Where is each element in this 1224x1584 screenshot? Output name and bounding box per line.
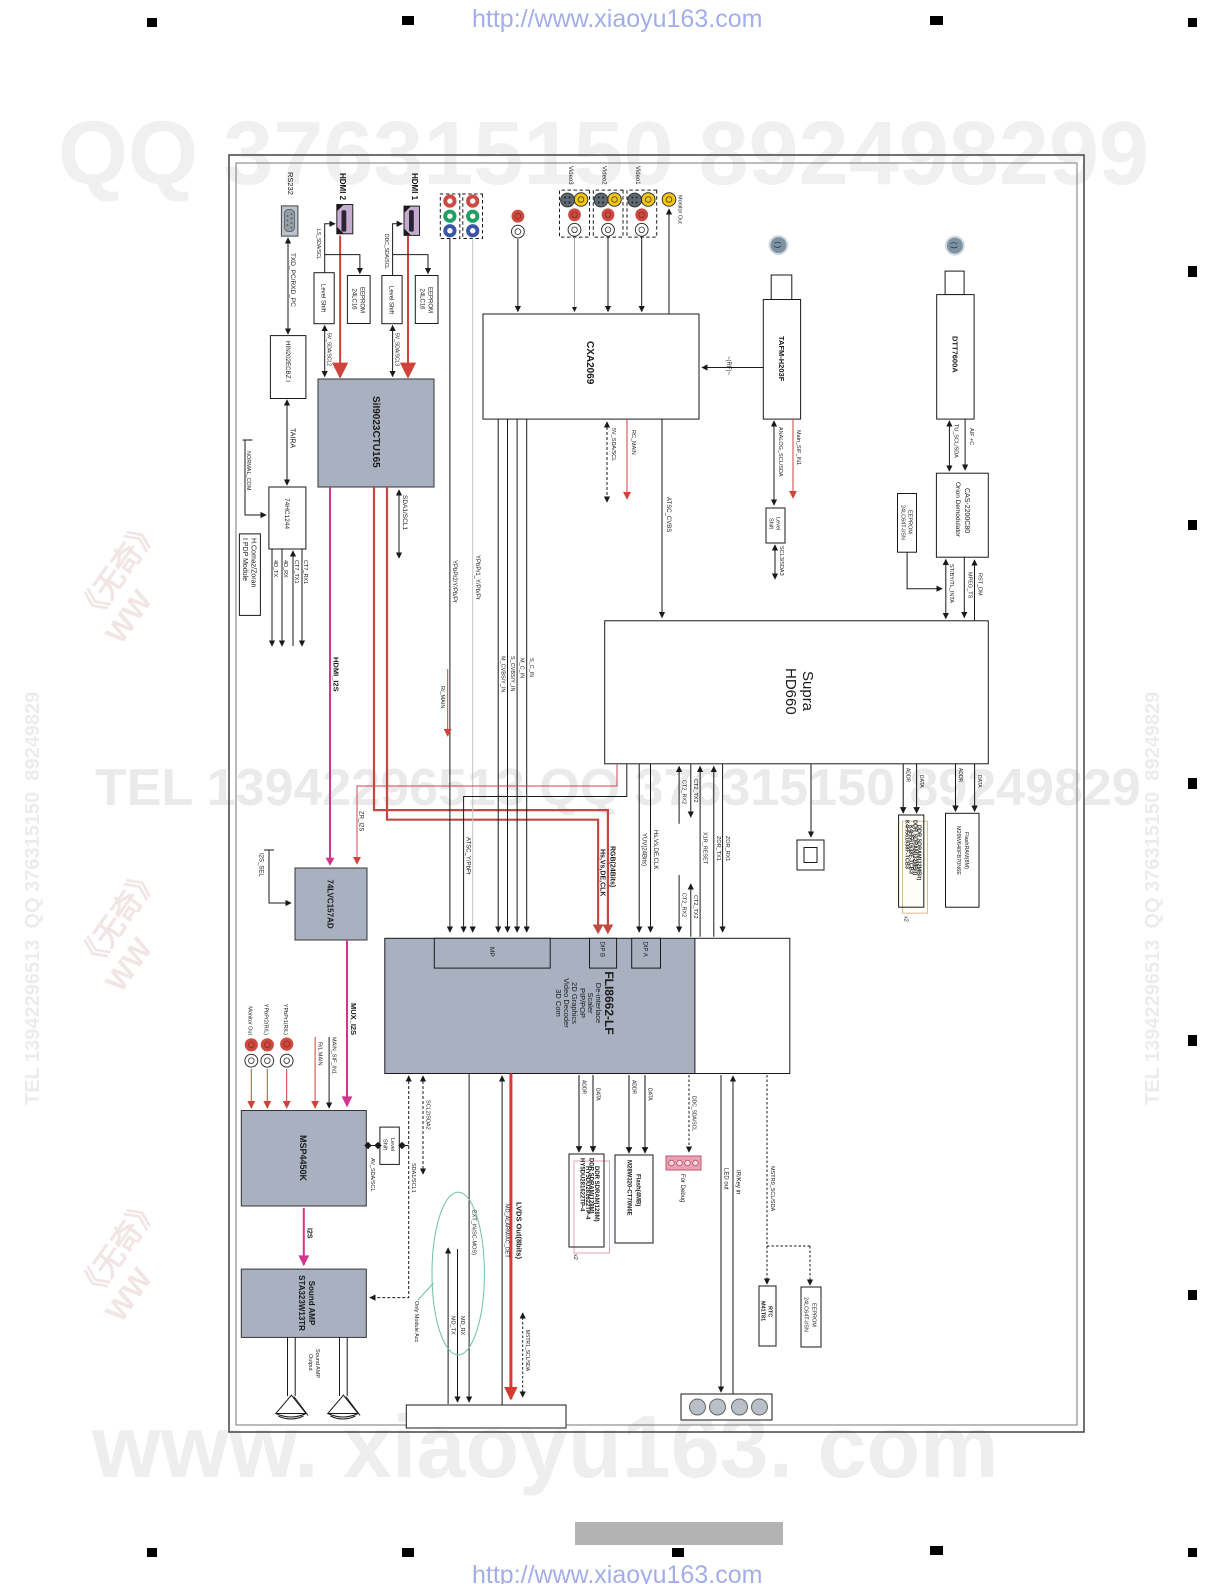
wire 4D_TX [271, 549, 273, 646]
svg-text:Video3: Video3 [567, 166, 573, 185]
svg-text:24LC64T-I/SN: 24LC64T-I/SN [900, 505, 906, 540]
svg-text:Only Module Acc: Only Module Acc [413, 1301, 419, 1343]
svg-text:MUX_I2S: MUX_I2S [349, 1003, 358, 1035]
wire SDA1/SCL1 (dashed to sound amp) [370, 1076, 409, 1298]
wire ADDR (Flash4) [628, 1075, 630, 1153]
svg-text:S_C_IN: S_C_IN [528, 658, 534, 677]
registration marks [147, 18, 157, 27]
svg-text:CT2_TX2: CT2_TX2 [692, 895, 698, 919]
watermark top url [472, 5, 762, 34]
IC Sound AMP STA323W13TR [241, 1269, 366, 1337]
svg-text:HY5DU281622TP-4: HY5DU281622TP-4 [579, 1158, 585, 1212]
wire I2S (magenta) [303, 1208, 305, 1265]
IC FLI8662-LF [385, 938, 790, 1073]
svg-text:5V_SDA/SCL: 5V_SDA/SCL [610, 428, 616, 461]
svg-text:RST_DM: RST_DM [977, 573, 983, 596]
wire ADDR (DDR128) [578, 1075, 580, 1152]
svg-text:CT2_TX2: CT2_TX2 [692, 779, 698, 803]
svg-text:I PDP Module: I PDP Module [241, 538, 248, 581]
jack audio white [512, 225, 525, 238]
wire 5V_SDA/SCL (dashed) [606, 422, 608, 502]
FLI port MP [434, 938, 550, 968]
svg-text:x2: x2 [903, 916, 909, 922]
connector For Debug (pink) [666, 1156, 701, 1170]
wire HDMI1 DDC to level shift [393, 224, 403, 276]
wire DATA (Flash8) [974, 764, 976, 812]
svg-text:CT7_RX1: CT7_RX1 [302, 560, 308, 584]
jack group Video2 [593, 190, 623, 237]
svg-text:Supra: Supra [799, 671, 816, 712]
wire EEPROM to CAS bus [907, 552, 942, 589]
svg-text:NORMAL_COM: NORMAL_COM [245, 451, 251, 491]
wire CT2_TX2 (FLI end) [690, 884, 692, 937]
svg-text:MP: MP [488, 947, 495, 957]
svg-text:TAIRA: TAIRA [289, 428, 296, 448]
FLI port DIP A [632, 938, 661, 968]
wire RF to CXA [702, 367, 763, 369]
IC CAS-2200C80 [936, 473, 988, 557]
wire R/L MAIN (red) [314, 1037, 316, 1108]
connector IR/Key (4 keys) [681, 1394, 772, 1420]
gray bottom bar [575, 1522, 783, 1545]
wire RGB(24Bits) (dark red) [374, 487, 608, 932]
wire ST/BY/TL_INTA [945, 560, 947, 619]
svg-text:Level Shift: Level Shift [320, 284, 326, 312]
svg-text:PIP/POP: PIP/POP [578, 988, 587, 1018]
wire YUV(24Bits) [638, 764, 640, 932]
svg-text:LED out: LED out [723, 1168, 729, 1190]
svg-text:HDMI 1: HDMI 1 [410, 173, 419, 201]
wire HDMI2 DDC branch to EEPROM [325, 255, 360, 274]
watermark bottom www [92, 1396, 998, 1498]
svg-text:x2: x2 [572, 1254, 578, 1260]
svg-text:DATA: DATA [918, 775, 924, 788]
svg-text:Video1: Video1 [634, 166, 640, 185]
svg-text:Monitor Out: Monitor Out [247, 1006, 253, 1035]
watermark mid TEL [95, 758, 1141, 818]
watermark wuqi 1 [64, 507, 197, 650]
svg-text:RC_MAIN: RC_MAIN [630, 430, 636, 455]
wire YPbPr2 to FLI [449, 239, 451, 933]
label FLI8662-LF text block [554, 971, 616, 1034]
svg-text:H.Comaz/Zoran: H.Comaz/Zoran [250, 538, 257, 588]
wire HDMI2 TMDS (red) [339, 236, 341, 377]
svg-text:IR/Key in: IR/Key in [735, 1170, 741, 1194]
svg-text:Level Shift: Level Shift [388, 286, 394, 314]
svg-text:Shift: Shift [768, 518, 774, 529]
link diamond MSP-LevelShift [368, 1145, 378, 1147]
wire DATA (DDR32) [916, 764, 918, 813]
svg-text:4D_RX: 4D_RX [282, 560, 288, 578]
svg-text:ADDR: ADDR [581, 1080, 587, 1095]
wire audio1 to MSP (red) [250, 1069, 252, 1108]
svg-text:DATA: DATA [647, 1088, 653, 1101]
svg-text:TXD_PC/RXD_PC: TXD_PC/RXD_PC [289, 253, 296, 307]
svg-text:LS_SDA/SCL: LS_SDA/SCL [315, 229, 321, 260]
svg-text:I2S: I2S [306, 1228, 313, 1239]
svg-text:YPbPr1_Y/Pb/Pr: YPbPr1_Y/Pb/Pr [474, 555, 480, 600]
memory Flash(4MB) [615, 1155, 653, 1243]
wire MAIN_SIF_IN1 [328, 1037, 330, 1108]
svg-text:STA323W13TR: STA323W13TR [297, 1275, 306, 1331]
wire CT2_RX2 (supra end) [678, 767, 680, 824]
wire R/_MAIN (red) [447, 669, 449, 736]
wire TAIRA [286, 400, 288, 485]
box PDP Module [239, 534, 260, 616]
svg-text:HD660: HD660 [782, 668, 799, 715]
ellipse pointer [418, 1283, 434, 1300]
wire LED out [720, 1075, 722, 1392]
wire MPEG_TS [963, 557, 965, 617]
wire SCL3/SDA3 [774, 545, 776, 579]
svg-text:M_C_IN: M_C_IN [519, 658, 525, 678]
wire I2S_SEL [264, 850, 291, 903]
svg-text:SCL2/SDA2: SCL2/SDA2 [425, 1100, 431, 1130]
jack audio out 3 red/white [280, 1038, 293, 1068]
svg-text:For Debug: For Debug [679, 1174, 685, 1202]
svg-text:MSP4450K: MSP4450K [298, 1135, 308, 1182]
svg-text:RGB(24Bits): RGB(24Bits) [609, 846, 616, 887]
svg-text:SDA1/SCL1: SDA1/SCL1 [410, 1163, 416, 1193]
svg-text:EEPROM: EEPROM [811, 1303, 817, 1327]
antenna jack (DTT) [945, 236, 965, 256]
IC Level Shift (AV) [380, 1127, 399, 1164]
IC SiI9023CTU165 [318, 379, 434, 487]
svg-text:Shift: Shift [382, 1139, 388, 1150]
svg-text:HIN202ECBZ I: HIN202ECBZ I [284, 341, 291, 382]
svg-text:( ): ( ) [950, 242, 957, 249]
wire CT2_RX2 (FLI end) [678, 875, 680, 932]
IC EEPROM 24LC64T (RTC side) [801, 1287, 821, 1347]
svg-text:M_CVBS/Y_IN: M_CVBS/Y_IN [500, 656, 506, 692]
svg-text:MSTR1_SCL/SDA: MSTR1_SCL/SDA [524, 1330, 530, 1372]
svg-text:LVDS Out(8bits): LVDS Out(8bits) [515, 1202, 524, 1259]
wire MSTR1_SCL/SDA (dashed) [522, 1313, 524, 1397]
svg-text:Level: Level [389, 1138, 395, 1151]
wire audio to CXA [517, 239, 519, 312]
wire DDC_SDA/SCL (dashed) [688, 1075, 690, 1152]
wire HDMI1 TMDS (red) [407, 236, 409, 377]
wire CT7_RX1 [301, 549, 303, 646]
svg-text:S_CVBS/Y_IN: S_CVBS/Y_IN [509, 656, 515, 691]
wire HDMI2 DDC to level shift [325, 224, 335, 273]
svg-text:ATSC_CVBS: ATSC_CVBS [665, 497, 671, 532]
svg-text:TU_SCL/SDA: TU_SCL/SDA [953, 424, 959, 458]
speaker 1 [276, 1395, 308, 1419]
jack YPbPr2 blue [443, 224, 456, 237]
svg-text:DTT7600A: DTT7600A [951, 336, 960, 373]
jack group Video1 [627, 190, 657, 237]
svg-text:Monitor Out: Monitor Out [677, 195, 683, 224]
svg-text:Video Decoder: Video Decoder [562, 978, 571, 1028]
connector RS232 [281, 206, 298, 236]
svg-text:DDC_SDA/SCL: DDC_SDA/SCL [383, 234, 389, 269]
jack group YPbPr1 (dashed box) [463, 194, 483, 239]
svg-text:DDR SDRAM(128M): DDR SDRAM(128M) [588, 1158, 594, 1214]
wire Video2 to CXA [607, 237, 609, 311]
jack group Video3 [560, 190, 590, 237]
wire Monitor Out from CXA [668, 209, 670, 314]
svg-text:EXT_IN(SC-MOS): EXT_IN(SC-MOS) [471, 1210, 477, 1255]
svg-text:FLI8662-LF: FLI8662-LF [602, 971, 616, 1034]
svg-text:R/_MAIN: R/_MAIN [439, 686, 445, 708]
jack YPbPr2 red [443, 195, 456, 208]
jack YPbPr1 red [466, 195, 479, 208]
svg-text:M29W640FB70N6E: M29W640FB70N6E [955, 826, 961, 875]
watermark wuqi 3 [64, 1185, 197, 1328]
svg-text:5V_SDA/SCL2: 5V_SDA/SCL2 [326, 333, 332, 366]
wire audio3 to MSP (red) [286, 1069, 288, 1108]
wire audio2 to MSP (red) [266, 1069, 268, 1108]
antenna jack (TAFM) [769, 235, 789, 255]
wire X1R_RESET [699, 767, 701, 937]
wire Hs,Vs,DE,CLK (DIPA) [650, 764, 652, 932]
wire M_C_IN [516, 419, 518, 932]
wire ZOR_RX1 [722, 764, 724, 932]
wire RC_MAIN (red) [626, 419, 628, 499]
wire NORMAL_COM [243, 440, 267, 515]
FLI port DIP B [590, 938, 617, 968]
jack YPbPr2 green [443, 210, 456, 223]
svg-text:DDR SDRAM(128M): DDR SDRAM(128M) [593, 1166, 599, 1222]
svg-text:DIP A: DIP A [642, 942, 648, 957]
svg-text:Sound AMP: Sound AMP [307, 1281, 316, 1326]
svg-text:24LC16: 24LC16 [419, 289, 425, 311]
svg-text:M41T81: M41T81 [760, 1301, 766, 1321]
wire SDA1/SCL1 (SiI) [398, 490, 400, 558]
svg-text:CT7_TX1: CT7_TX1 [293, 560, 299, 584]
label Sound AMP Output [307, 1349, 320, 1378]
wire CT2_TX2 (supra end) [690, 764, 692, 817]
svg-text:CAS-2200C80: CAS-2200C80 [963, 488, 970, 533]
svg-text:DDC_SDA/SCL: DDC_SDA/SCL [691, 1096, 697, 1131]
wire ZOR_TX1 [713, 767, 715, 937]
IC EEPROM 24LC64T [898, 494, 917, 553]
memory DDR SDRAM(128M) [569, 1154, 610, 1253]
svg-text:ANALOG_SCL/SDA: ANALOG_SCL/SDA [777, 427, 783, 477]
svg-text:RTC: RTC [767, 1306, 773, 1317]
wire HDMI_I2S (magenta) [329, 487, 331, 864]
svg-text:MSTR0_SCL/SDA: MSTR0_SCL/SDA [769, 1166, 775, 1212]
speaker 2 [328, 1395, 360, 1419]
svg-text:DATA: DATA [595, 1088, 601, 1101]
IC MSP4450K [241, 1111, 366, 1207]
IC Level Shift (HDMI2) [314, 273, 334, 324]
svg-text:Main_SIF_IN1: Main_SIF_IN1 [795, 430, 801, 465]
connector HDMI 1 [404, 206, 420, 235]
svg-text:CT2_RX2: CT2_RX2 [681, 893, 687, 917]
svg-text:24LC16: 24LC16 [351, 289, 357, 311]
svg-text:EEPROM: EEPROM [907, 510, 913, 534]
svg-text:CT2_RX2: CT2_RX2 [681, 780, 687, 804]
svg-text:EEPROM: EEPROM [427, 287, 433, 313]
wire YPbPr1 to FLI (gray) [472, 239, 474, 933]
watermark wuqi 2 [64, 855, 197, 998]
wire AIF [964, 419, 966, 470]
svg-text:HDMI_I2S: HDMI_I2S [332, 657, 341, 692]
wire Video3 to CXA [574, 237, 576, 311]
svg-text:AV_SDA/SCL: AV_SDA/SCL [369, 1158, 375, 1192]
wire Hs,Vs,DE,CLK (dark red) [387, 487, 598, 932]
svg-text:R/L MAIN: R/L MAIN [317, 1042, 323, 1066]
wire speaker1 b [287, 1337, 289, 1396]
wire MD_TX [447, 1248, 449, 1404]
svg-text:TAFM-H203F: TAFM-H203F [777, 336, 786, 382]
svg-text:AIF +C: AIF +C [968, 428, 974, 445]
wire speaker2 b [339, 1337, 341, 1396]
wire TXD_PC/RXD_PC [287, 238, 289, 334]
svg-text:ADDR: ADDR [905, 768, 911, 783]
frame outer border [229, 155, 1084, 1432]
frame inner border [236, 163, 1077, 1425]
tuner TAFM-H203F [763, 275, 800, 419]
jack audio out 1 red/white [245, 1038, 258, 1067]
wire Video1 to CXA [641, 237, 643, 311]
svg-text:EEPROM: EEPROM [359, 287, 365, 313]
svg-text:K4H561638F-TCB3: K4H561638F-TCB3 [904, 820, 910, 869]
IC Level Shift (HDMI1) [382, 276, 402, 324]
svg-text:Hs,Vs,DE,CLK: Hs,Vs,DE,CLK [652, 830, 658, 869]
memory FlashRAM(8M) [946, 813, 980, 907]
IC Supra HD660 [605, 621, 989, 764]
svg-text:Output: Output [307, 1354, 313, 1371]
IC 74HC1244 [269, 487, 306, 549]
svg-text:ST/BY/TL_INTA: ST/BY/TL_INTA [948, 564, 954, 603]
wire MSTR0_SCL/SDA (dashed) [767, 1075, 810, 1285]
svg-text:Hs,Vs,DE,CLK: Hs,Vs,DE,CLK [599, 849, 606, 896]
svg-text:MD_ALARM/AC_DET: MD_ALARM/AC_DET [504, 1204, 510, 1258]
wire 5V_SDA/SCL3 [392, 326, 394, 377]
wire MD_RX [457, 1249, 459, 1402]
svg-text:ADDR: ADDR [631, 1080, 637, 1095]
wire ADDR (Flash8) [955, 764, 957, 812]
wire IR/Key in [732, 1076, 734, 1394]
wire speaker1 a [294, 1337, 296, 1396]
svg-text:Scaler: Scaler [586, 992, 595, 1014]
wire CT7_TX1 [292, 551, 294, 646]
IC CXA2069 [483, 314, 699, 419]
wire 4D_RX [281, 549, 283, 646]
svg-text:DIP B: DIP B [599, 942, 605, 958]
IC EEPROM 24LC16 (HDMI1) [415, 276, 438, 324]
wire ANALOG_SCL/SDA [773, 421, 775, 505]
svg-text:Level: Level [775, 517, 781, 530]
svg-text:ZOR_RX1: ZOR_RX1 [724, 836, 730, 861]
svg-text:3D Com: 3D Com [554, 989, 563, 1017]
watermark bottom url [472, 1561, 762, 1584]
watermark right vertical TEL [1142, 692, 1165, 1105]
svg-text:74HC1244: 74HC1244 [283, 498, 290, 529]
svg-text:SCL3/SDA3: SCL3/SDA3 [778, 546, 784, 576]
svg-text:RS232: RS232 [286, 172, 295, 195]
wire ADDR (DDR32) [902, 764, 904, 813]
IC RTC M41T81 [759, 1286, 776, 1346]
svg-text:24LC64T-I/SN: 24LC64T-I/SN [803, 1297, 809, 1332]
ellipse Only Module [432, 1192, 484, 1355]
svg-text:SiI9023CTU165: SiI9023CTU165 [370, 396, 381, 468]
wire S_C_IN [526, 419, 528, 932]
svg-text:MD_TX: MD_TX [450, 1316, 456, 1335]
tuner DTT7600A [937, 271, 974, 419]
jack YPbPr1 green [466, 210, 479, 223]
wire LVDS Out (red) [509, 1074, 512, 1400]
wire EXT_IN(SC-MOS) [468, 1074, 470, 1403]
wire DATA (Flash4) [644, 1075, 646, 1153]
svg-text:YPbPr2/Y/Pb/Pr: YPbPr2/Y/Pb/Pr [451, 560, 457, 603]
svg-text:5V_SDA/SCL3: 5V_SDA/SCL3 [394, 333, 400, 366]
svg-text:FlashRAM(8M): FlashRAM(8M) [963, 832, 969, 869]
wire DATA (DDR128) [592, 1075, 594, 1152]
wire SCL2/SDA2 (dashed) [422, 1076, 424, 1174]
svg-text:HDMI 2: HDMI 2 [338, 173, 347, 201]
wire S_CVBS/Y_IN [507, 419, 509, 932]
svg-text:DATA: DATA [976, 775, 982, 788]
wire ATSC_CVBS [661, 419, 663, 617]
wire ATSC_Y/PbPr [464, 764, 627, 932]
wire ZR_I2S (red) [357, 764, 617, 864]
connector HDMI 2 [337, 205, 353, 234]
svg-text:Flash(4MB): Flash(4MB) [635, 1174, 641, 1206]
svg-text:SDA1/SCL1: SDA1/SCL1 [401, 495, 408, 530]
svg-text:( ): ( ) [774, 242, 781, 249]
wire speaker2 a [346, 1337, 348, 1396]
jack YPbPr1 blue [466, 224, 479, 237]
wire Main_SIF_IN1 (red) [792, 419, 794, 498]
watermark left vertical TEL [22, 692, 45, 1105]
IC 74LVC157AD [295, 868, 367, 940]
svg-text:CXA2069: CXA2069 [584, 341, 595, 385]
wire MUX_I2S (magenta) [346, 940, 348, 1106]
wire RST_DM [974, 560, 976, 621]
svg-text:4D_TX: 4D_TX [272, 560, 278, 577]
memory DDR SDRAM(32M) [899, 815, 928, 913]
svg-text:ZOR_TX1: ZOR_TX1 [715, 836, 721, 861]
link diamond LevelShift-SDA1 [402, 1145, 409, 1147]
jack Monitor Out yellow [662, 193, 676, 207]
svg-text:DDR SDRAM(32MBit): DDR SDRAM(32MBit) [912, 820, 918, 875]
svg-text:2D Graphics: 2D Graphics [570, 982, 579, 1024]
svg-text:YUV(24Bits): YUV(24Bits) [641, 833, 647, 866]
svg-text:Video2: Video2 [601, 166, 607, 185]
svg-text:X1R_RESET: X1R_RESET [702, 832, 708, 865]
svg-text:MD_RX: MD_RX [459, 1316, 465, 1336]
svg-text:MAIN_SIF_IN1: MAIN_SIF_IN1 [331, 1037, 337, 1074]
jack audio out 2 red/white [261, 1038, 274, 1067]
svg-text:ATSC_Y/PbPr: ATSC_Y/PbPr [465, 837, 471, 875]
wire M_CVBS/Y_IN [497, 419, 499, 932]
svg-text:Sound AMP: Sound AMP [314, 1349, 320, 1378]
watermark big QQ [58, 103, 1149, 206]
crystal box [797, 840, 824, 870]
svg-text:De-interlace: De-interlace [594, 983, 603, 1023]
svg-text:YPbPr1(R/L): YPbPr1(R/L) [282, 1004, 288, 1035]
IC EEPROM 24LC16 (HDMI2) [347, 276, 370, 324]
svg-text:ZR_I2S: ZR_I2S [358, 811, 364, 831]
connector module (long) [406, 1405, 566, 1428]
wire HDMI1 DDC branch to EEPROM [393, 255, 428, 274]
svg-text:MPEG_TS: MPEG_TS [967, 572, 973, 599]
wire 5V_SDA/SCL2 [324, 326, 326, 377]
wire to crystal [810, 764, 812, 837]
svg-text:YPbPr2(R/L): YPbPr2(R/L) [263, 1004, 269, 1035]
svg-text:~(RF)~: ~(RF)~ [725, 356, 731, 375]
jack audio red [512, 210, 525, 223]
IC HIN202ECBZ [270, 336, 306, 399]
wire TU_SCL/SDA [948, 421, 950, 471]
svg-text:I2S_SEL: I2S_SEL [258, 853, 264, 877]
svg-text:Orion Demodulator: Orion Demodulator [954, 482, 961, 538]
svg-text:74LVC157AD: 74LVC157AD [326, 879, 335, 928]
